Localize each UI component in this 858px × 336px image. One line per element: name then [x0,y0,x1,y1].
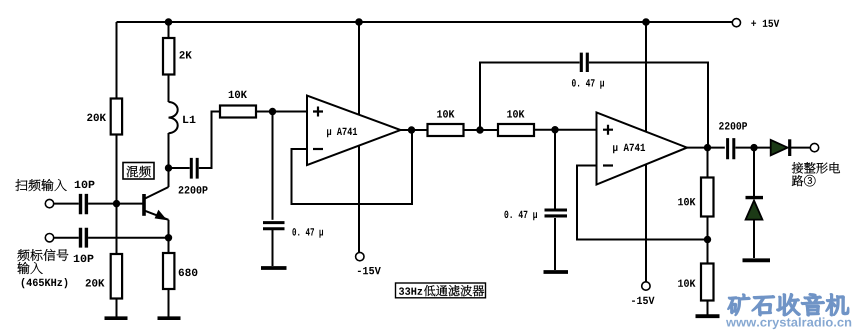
node U2 output junction [704,144,711,151]
wire R8 to R9 [707,217,709,264]
capacitor C2 10P [81,228,87,248]
node U2 + input junction [551,126,558,133]
label to-shaper line1 接整形电 [792,162,840,173]
capacitor C4 0.47u [263,223,285,229]
U1 minus mark [313,148,323,150]
label U2 uA741 [613,144,645,154]
label box 33Hz low-pass filter [396,283,486,298]
label -15V (U1) [358,267,381,274]
label sweep input 扫频输入 [16,179,67,191]
wire node to D2 [753,148,755,196]
label C3 2200P [179,186,208,194]
diode D2 clamp [746,201,763,220]
ground C6 [544,270,569,274]
wire R7 to U2 + input [534,129,597,131]
capacitor C5 0.47u [581,53,587,72]
wire +15V top rail [117,21,733,23]
wire emitter down [168,220,170,253]
label +15V [751,20,779,27]
wire node to C4 [272,112,274,220]
wire U2 feedback [577,166,708,240]
label L1 [183,116,195,123]
label low-pass filter 低通滤波器 [424,285,484,296]
terminal sweep input [45,199,53,207]
terminal output [810,143,818,151]
U2 plus mark [603,125,613,135]
wire D2 to ground [753,220,755,258]
ground R2 [105,316,128,320]
transistor Q1 emitter lead [145,211,169,220]
label R7 10K [507,110,524,118]
resistor R5 10K [220,106,256,118]
resistor R1 20K upper [111,99,122,135]
wire C6 to ground [554,218,556,270]
resistor R6 10K [428,124,464,136]
wire C7 to diode node [735,147,770,149]
wire R9 to ground [707,301,709,315]
label marker input line1 频标信号 [17,249,68,261]
wire node to C6 [554,130,556,209]
wire U1 supply cross line [358,22,360,252]
label -15V (U2) [632,297,654,304]
resistor R3 2K [163,38,174,75]
label R2 20K [86,279,105,287]
ground R9 [696,314,720,318]
diode D1 series [771,140,788,155]
resistor R9 10K [701,264,714,301]
wire U2 supply cross line [645,22,647,282]
label U1 uA741 [327,128,357,138]
label R5 10K [229,91,247,99]
wire R6 to R7 [464,129,499,131]
label C2 10P [74,255,94,263]
node rail-U2 supply junction [642,18,650,26]
label R9 10K [678,279,695,287]
diode D2 cathode bar [746,196,764,199]
transistor Q1 base bar [142,194,146,216]
ground C4 [261,266,287,270]
label mixer 混频 [127,166,151,178]
inductor L1 [169,102,178,133]
capacitor C6 0.47u [545,210,568,216]
label to-shaper line2 路(3) [792,175,816,186]
transistor Q1 collector lead [145,187,169,199]
wire C2 to emitter node [88,237,168,239]
wire input2 to C2 [54,237,79,239]
terminal -15V (U2) [642,282,650,290]
resistor R8 10K [701,178,714,217]
resistor R7 10K [498,124,534,136]
op-amp U1 [307,96,401,166]
label marker input line2 输入 [17,262,42,274]
resistor R4 680 [163,253,174,289]
wire R1 to base node [116,135,118,255]
label C1 10P [75,181,95,189]
wire left bias column drop [116,22,118,99]
node base bias junction [113,200,120,207]
label C5 0.47u [572,79,604,89]
label R3 2K [179,51,191,58]
wire R5 to U1 + input [256,111,307,113]
wire U1 feedback [292,130,413,204]
capacitor C7 2200P [728,138,734,159]
terminal +15V [732,19,740,27]
ground R4 [158,316,181,320]
wire U2 output [687,147,725,149]
op-amp U2 [597,113,688,185]
label C6 0.47u [504,211,537,221]
capacitor C1 10P [81,194,87,214]
node collector/tank junction [165,164,172,171]
wire R4 to ground [168,289,170,317]
wire C1 to base [88,203,143,205]
watermark url [726,317,851,329]
wire U1 output [401,129,428,131]
ground D2 [743,258,771,262]
wire tank node to C3 [169,167,190,169]
label C4 0.47u [292,228,323,238]
wire output node to R8 [707,148,709,178]
node emitter junction [165,234,172,241]
node rail-2K junction [165,18,173,26]
wire C4 to ground [272,230,274,266]
label (465KHz) [22,278,68,288]
transistor Q1 emitter arrow [155,210,168,221]
diode D1 cathode bar [788,139,791,156]
wire C3 up to R5 [199,112,220,169]
label R1 20K [87,114,106,122]
node diode junction [750,144,757,151]
terminal -15V (U1) [356,252,364,260]
U1 plus mark [313,107,323,117]
node U1 + input junction [269,108,276,115]
capacitor C3 2200P [191,158,197,179]
resistor R2 20K lower [111,254,122,299]
node U1 output junction [408,126,415,133]
label R4 680 [179,269,198,277]
wire C5 feedback loop [480,63,708,148]
watermark 矿石收音机 [728,294,849,316]
wire collector up to tank node [168,133,170,187]
node R6-R7 junction [476,126,483,133]
wire input1 to C1 [54,203,79,205]
label R8 10K [678,198,695,206]
wire R2 to ground [116,299,118,317]
wire R3 to L1 [168,75,170,103]
U2 minus mark [603,164,613,166]
node divider junction [704,236,711,243]
label R6 10K [437,110,454,118]
wire rail to R3 [168,22,170,38]
wire D1 to output terminal [791,147,810,149]
node rail-U1 supply junction [355,18,363,26]
terminal marker input [45,234,53,242]
label 混频 box [123,163,154,180]
label C7 2200P [719,122,747,130]
